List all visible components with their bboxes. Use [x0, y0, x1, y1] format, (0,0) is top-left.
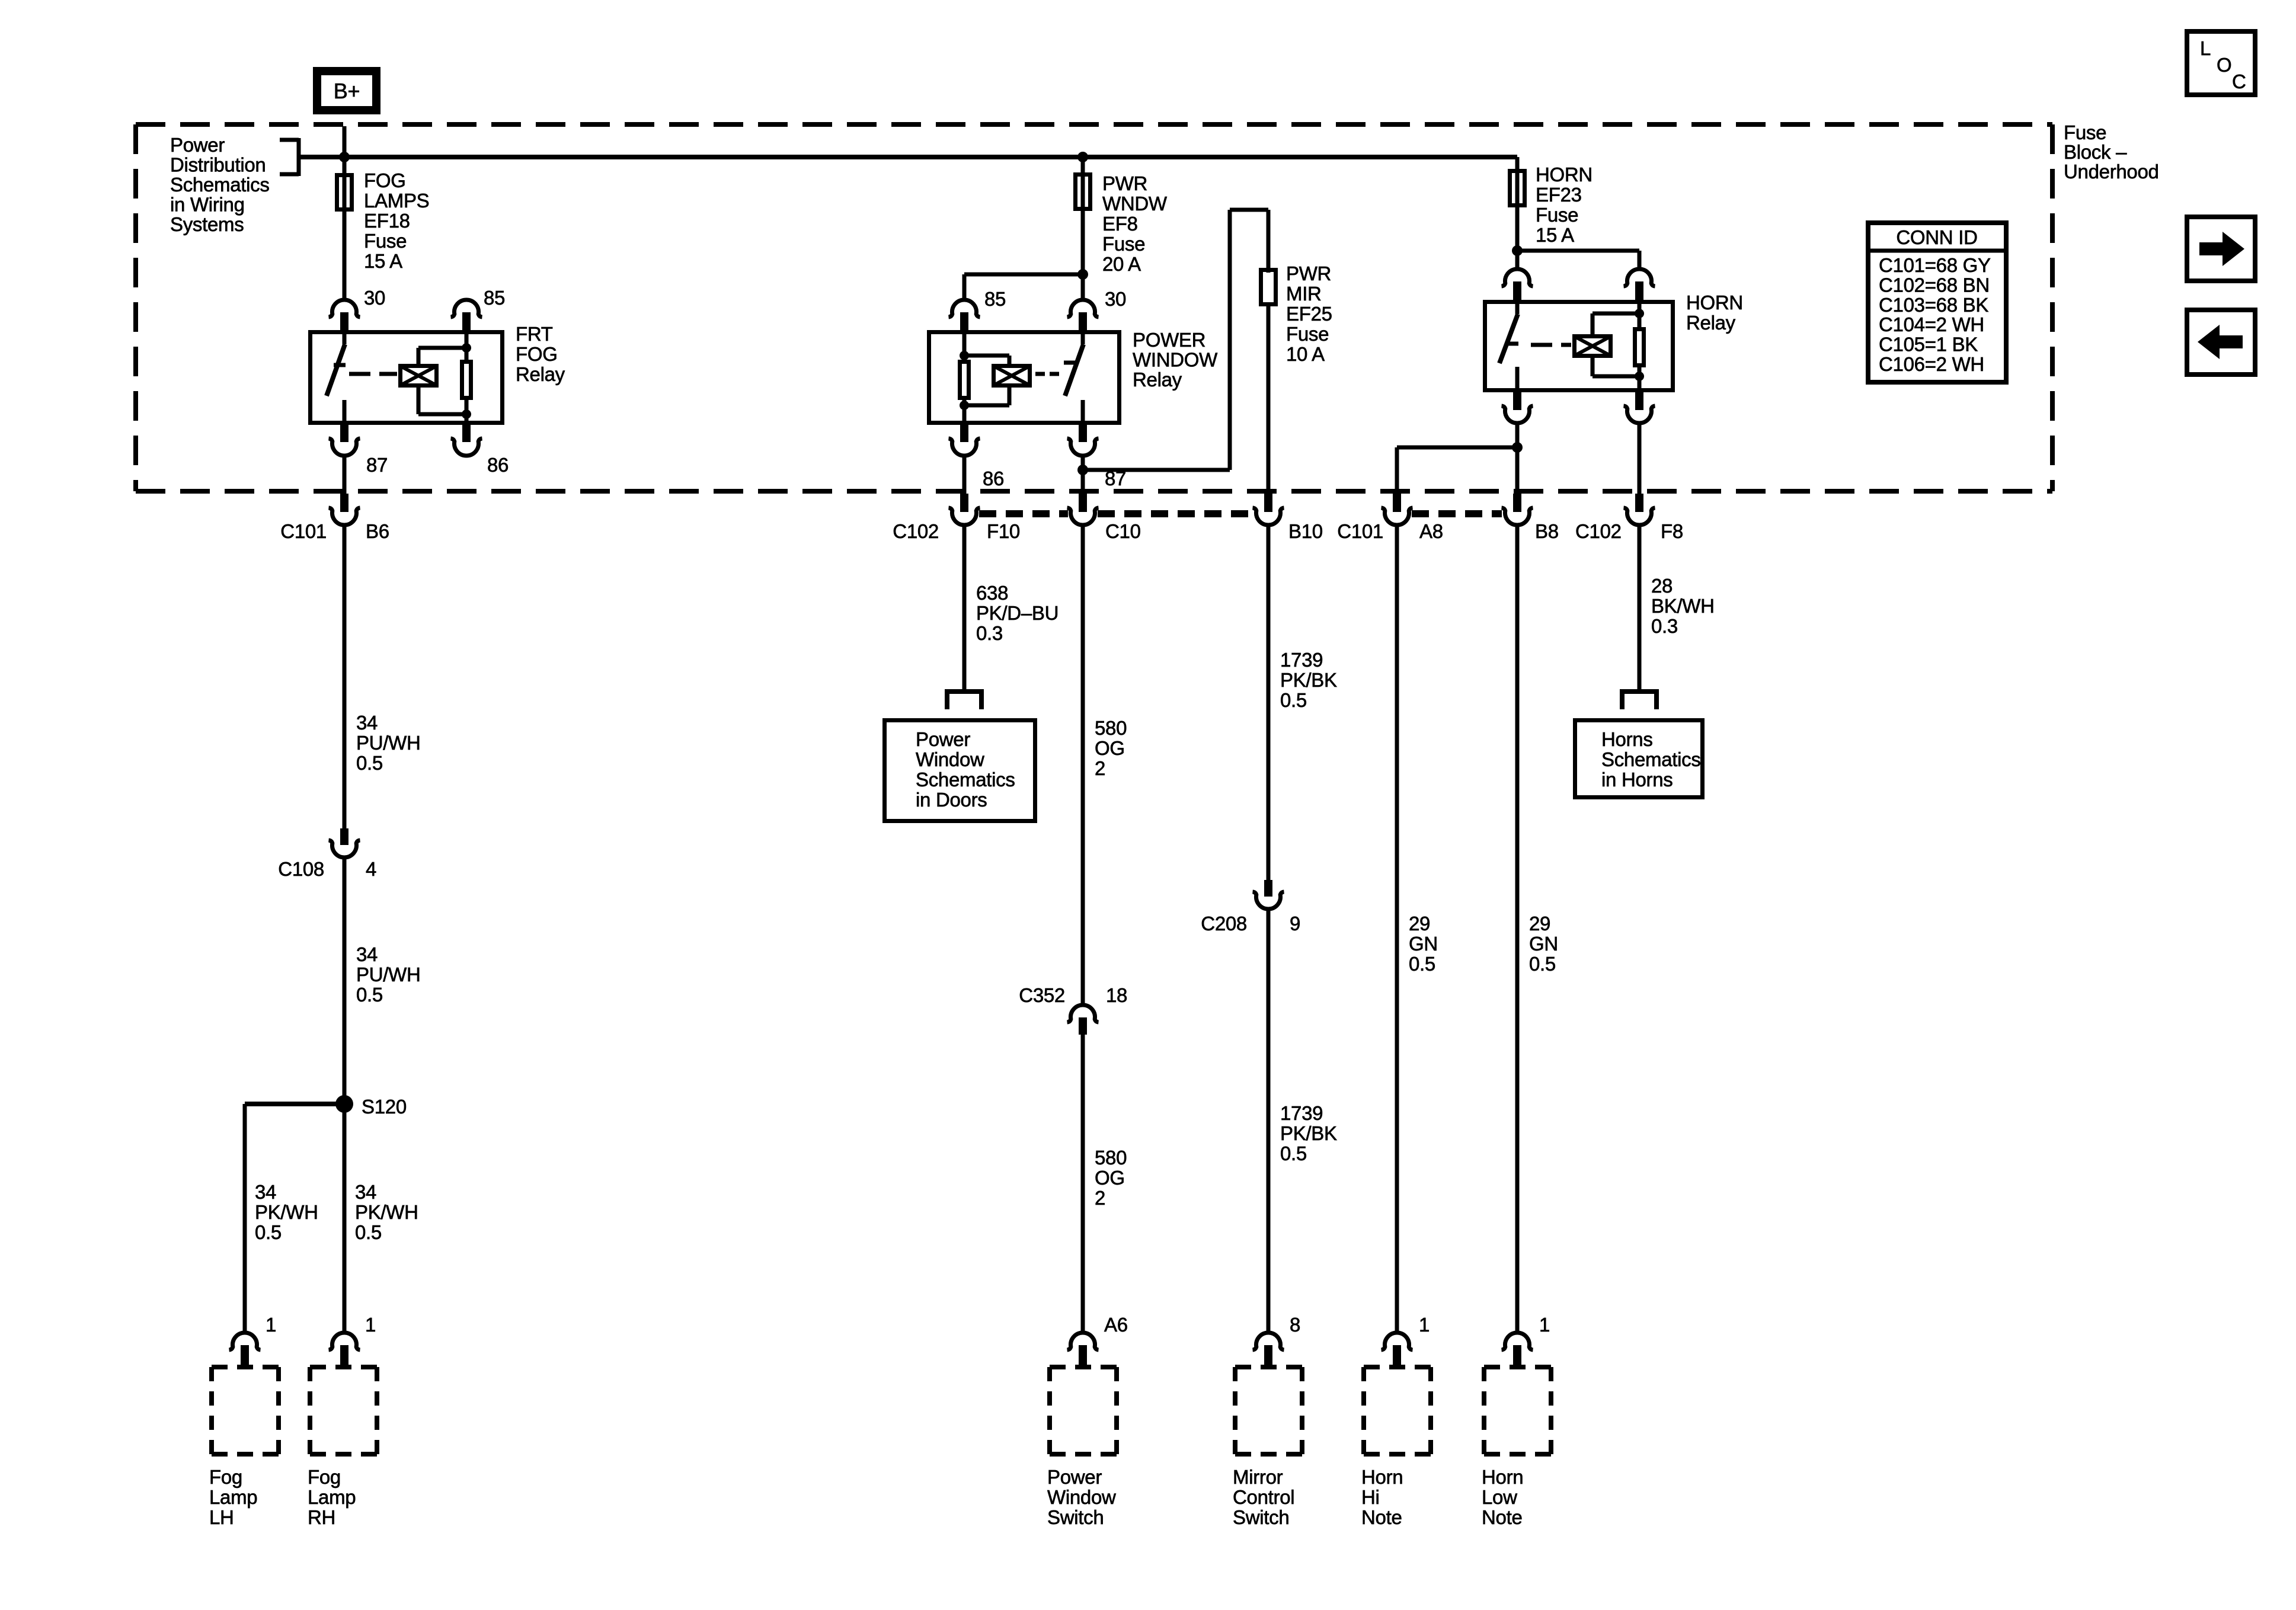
svg-text:18: 18 [1106, 984, 1127, 1006]
label C101 [280, 520, 327, 542]
connector C10 [1067, 494, 1099, 525]
B+ battery feed symbol box [317, 71, 376, 110]
junction dot horn coil bottom [1635, 372, 1644, 381]
svg-text:L: L [2200, 37, 2211, 59]
fog relay coil top loop [418, 348, 466, 364]
svg-text:HORN: HORN [1686, 292, 1743, 313]
svg-text:1: 1 [1419, 1314, 1430, 1336]
wire label 34 PK/WH 0.5 left [255, 1181, 318, 1243]
svg-text:PWR: PWR [1286, 263, 1331, 284]
wire S120 to fog lamp RH [343, 1104, 347, 1332]
back arrow box [2187, 310, 2255, 375]
svg-text:580: 580 [1095, 1147, 1127, 1169]
wire EF25 to B10 [1267, 306, 1271, 492]
component box Mirror Control Switch [1235, 1367, 1302, 1454]
fog relay pin 87 terminal [329, 425, 360, 456]
connector C102 pin F10 [949, 494, 980, 525]
label Power Window Switch [1047, 1466, 1116, 1528]
svg-text:0.5: 0.5 [1280, 1142, 1307, 1164]
wire horn fuse to coil pin [1517, 251, 1639, 268]
label pin 30 fog relay [364, 287, 385, 309]
svg-text:FRT: FRT [516, 323, 553, 345]
power window switch pin terminal [1067, 1333, 1099, 1365]
wire C108 to S120 [343, 856, 347, 1104]
wire C208 to mirror control switch [1267, 908, 1271, 1332]
relay FRT FOG box [311, 332, 503, 423]
svg-text:1739: 1739 [1280, 1102, 1323, 1124]
label pin 1 horn hi [1419, 1314, 1430, 1336]
svg-text:8: 8 [1290, 1314, 1300, 1336]
svg-text:C101: C101 [1337, 520, 1383, 542]
svg-text:PK/WH: PK/WH [255, 1201, 318, 1223]
dotted connector link A8-B8 [1412, 510, 1502, 517]
svg-text:1: 1 [1539, 1314, 1550, 1336]
wire C10 to C352 [1081, 524, 1085, 1004]
wire horn output to A8 [1397, 447, 1517, 492]
svg-text:EF25: EF25 [1286, 303, 1332, 325]
svg-text:Fuse: Fuse [1286, 323, 1329, 345]
junction dot pw coil top [960, 351, 969, 360]
wire B8 to horn low note [1515, 524, 1520, 1332]
svg-text:Horns: Horns [1601, 728, 1653, 750]
label HORN EF23 Fuse 15 A [1536, 164, 1593, 246]
svg-text:Fuse: Fuse [1536, 204, 1578, 226]
svg-text:F10: F10 [987, 520, 1020, 542]
junction dot horn fuse output [1512, 245, 1523, 256]
svg-text:B10: B10 [1288, 520, 1323, 542]
svg-text:B+: B+ [334, 79, 360, 103]
svg-text:9: 9 [1290, 913, 1300, 934]
svg-text:34: 34 [355, 1181, 376, 1203]
wire bus to fog relay pin 30 [343, 157, 347, 299]
svg-text:PK/WH: PK/WH [355, 1201, 418, 1223]
off-page connector to horns schematic [1620, 689, 1659, 709]
wire label 580 OG 2 lower [1095, 1147, 1127, 1209]
horn relay switch [1499, 300, 1518, 392]
svg-text:C: C [2232, 71, 2246, 92]
fog relay pin 85 terminal [451, 300, 482, 330]
svg-text:C104=2 WH: C104=2 WH [1879, 313, 1984, 335]
pw relay pin86 internal wire [962, 400, 967, 425]
svg-text:Note: Note [1361, 1506, 1402, 1528]
wire label 638 PK/D-BU 0.3 [976, 582, 1059, 644]
svg-text:C352: C352 [1019, 984, 1065, 1006]
pw relay coil top loop [964, 356, 1009, 364]
label B10 [1288, 520, 1323, 542]
fog relay coil [401, 366, 437, 386]
svg-text:Note: Note [1482, 1506, 1523, 1528]
horn relay coil internal wire [1638, 300, 1642, 327]
Fuse Block - Underhood dashed box right border [2050, 124, 2055, 491]
wire pw relay 86 to C102 [962, 454, 967, 494]
component box Fog Lamp LH [212, 1367, 279, 1454]
svg-text:29: 29 [1529, 913, 1550, 934]
wire A8 to horn hi note [1395, 524, 1399, 1332]
label 4 [366, 858, 376, 880]
bracket for Power Distribution reference [280, 138, 299, 176]
svg-text:C102: C102 [1575, 520, 1622, 542]
svg-text:Relay: Relay [516, 363, 565, 385]
label C102 [893, 520, 939, 542]
svg-text:0.5: 0.5 [1529, 953, 1556, 975]
svg-text:C101: C101 [280, 520, 327, 542]
wire label 34 PU/WH 0.5 lower [356, 943, 421, 1006]
wire F8 to horns schematic [1638, 524, 1642, 689]
horn relay resistor [1635, 329, 1644, 366]
wire F10 to doors schematic [962, 524, 967, 689]
svg-text:in Wiring: in Wiring [170, 194, 245, 216]
svg-text:Lamp: Lamp [209, 1486, 257, 1508]
pw relay switch [1064, 330, 1083, 425]
relay HORN box [1485, 302, 1673, 391]
svg-text:34: 34 [255, 1181, 276, 1203]
svg-text:Hi: Hi [1361, 1486, 1380, 1508]
wire label 580 OG 2 upper [1095, 717, 1127, 779]
svg-text:B8: B8 [1535, 520, 1559, 542]
svg-text:C106=2 WH: C106=2 WH [1879, 353, 1984, 375]
svg-text:in Horns: in Horns [1601, 769, 1673, 790]
label HORN Relay [1686, 292, 1743, 334]
label Power Distribution Schematics in Wiring Systems [170, 134, 270, 235]
svg-text:Schematics: Schematics [170, 174, 270, 196]
junction dot pw coil bottom [960, 401, 969, 410]
svg-text:28: 28 [1651, 575, 1673, 597]
label C101 at A8 [1337, 520, 1383, 542]
svg-text:Switch: Switch [1233, 1506, 1289, 1528]
svg-text:Relay: Relay [1133, 369, 1182, 391]
label pin 86 pw relay [983, 468, 1004, 489]
svg-text:1: 1 [266, 1314, 276, 1336]
svg-text:Mirror: Mirror [1233, 1466, 1283, 1488]
component box Horn Low Note [1484, 1367, 1551, 1454]
fog relay pin85 internal wire [465, 330, 469, 360]
main B+ bus wire [299, 155, 1517, 159]
component box Power Window Switch [1050, 1367, 1117, 1454]
label pin 87 fog relay [366, 454, 388, 476]
CONN ID table [1866, 223, 2009, 382]
wire B10 to C208 [1267, 524, 1271, 880]
wire pw fuse to pin 85 [964, 274, 1083, 299]
wire label 29 GN 0.5 left [1409, 913, 1438, 975]
label Fog Lamp LH [209, 1466, 257, 1528]
connector C352 pin 18 [1067, 1005, 1099, 1035]
svg-text:Fuse: Fuse [1102, 233, 1145, 255]
svg-text:1: 1 [365, 1314, 376, 1336]
svg-text:Window: Window [916, 748, 984, 770]
svg-text:2: 2 [1095, 757, 1105, 779]
svg-text:Systems: Systems [170, 213, 244, 235]
wire horn fuse to relay [1515, 166, 1520, 268]
pw relay pin 30 terminal [1067, 300, 1099, 330]
wire C101-B6 to C108 [343, 524, 347, 828]
horn hi note pin terminal [1382, 1333, 1413, 1365]
svg-text:580: 580 [1095, 717, 1127, 739]
svg-text:PU/WH: PU/WH [356, 732, 421, 754]
junction dot fog coil top [462, 343, 471, 353]
pw relay actuator dashed link [1035, 372, 1061, 376]
svg-text:C108: C108 [278, 858, 324, 880]
pw relay pin 87 terminal [1067, 425, 1099, 456]
fuse EF25 PWR MIR 10A [1261, 270, 1276, 305]
svg-text:A6: A6 [1104, 1314, 1128, 1336]
svg-text:EF18: EF18 [364, 210, 410, 232]
fog relay actuator dashed link [349, 372, 397, 376]
svg-text:OG: OG [1095, 737, 1125, 759]
svg-text:0.5: 0.5 [1409, 953, 1435, 975]
label B6 [366, 520, 389, 542]
connector C102 pin F8 [1624, 494, 1655, 525]
label pin 30 pw relay [1105, 288, 1126, 310]
label S120 [362, 1096, 407, 1118]
mirror control switch pin terminal [1253, 1333, 1284, 1365]
fog relay resistor [462, 362, 471, 398]
svg-text:GN: GN [1409, 933, 1438, 955]
horn relay switch output terminal [1502, 392, 1533, 423]
svg-text:4: 4 [366, 858, 376, 880]
svg-text:Control: Control [1233, 1486, 1294, 1508]
label PWR WNDW EF8 Fuse 20 A [1102, 172, 1168, 275]
horn relay coil lower internal wire [1638, 367, 1642, 392]
svg-text:Low: Low [1482, 1486, 1517, 1508]
svg-text:30: 30 [364, 287, 385, 309]
label pin 8 [1290, 1314, 1300, 1336]
fuse EF18 FOG LAMPS 15A [337, 175, 352, 210]
connector C101 pin B6 [329, 494, 360, 525]
Fuse Block - Underhood dashed box left border [133, 124, 138, 491]
pw relay coil bottom loop [964, 388, 1009, 405]
label 9 [1290, 913, 1300, 934]
svg-text:C105=1 BK: C105=1 BK [1879, 334, 1978, 356]
svg-text:MIR: MIR [1286, 283, 1322, 305]
svg-text:BK/WH: BK/WH [1651, 595, 1715, 617]
component box Horn Hi Note [1364, 1367, 1431, 1454]
wire C352 to power window switch [1081, 1035, 1085, 1332]
horn low note pin terminal [1502, 1333, 1533, 1365]
label C208 [1201, 913, 1247, 934]
svg-text:10 A: 10 A [1286, 343, 1325, 365]
junction dot bus/fog [339, 152, 350, 162]
svg-text:87: 87 [366, 454, 388, 476]
wire pw relay 87 down [1081, 454, 1085, 494]
svg-text:PK/D–BU: PK/D–BU [976, 602, 1059, 624]
horn relay switch-side terminal [1502, 269, 1533, 300]
svg-text:Power: Power [916, 728, 970, 750]
svg-text:WINDOW: WINDOW [1133, 349, 1218, 371]
svg-text:S120: S120 [362, 1096, 407, 1118]
label Fog Lamp RH [308, 1466, 356, 1528]
label pin 87 pw relay [1105, 468, 1126, 489]
pw relay pin 85 terminal [949, 300, 980, 330]
svg-text:0.3: 0.3 [1651, 615, 1678, 637]
svg-text:in Doors: in Doors [916, 789, 987, 811]
svg-text:C102=68 BN: C102=68 BN [1879, 274, 1990, 296]
off-page connector to doors schematic [945, 689, 984, 709]
svg-text:30: 30 [1105, 288, 1126, 310]
wire horn relay to splice [1515, 422, 1520, 494]
horn relay coil [1575, 337, 1611, 356]
label C10 [1105, 520, 1141, 542]
svg-text:Horn: Horn [1482, 1466, 1523, 1488]
horn relay actuator dashed link [1531, 343, 1571, 347]
svg-text:1739: 1739 [1280, 649, 1323, 671]
svg-text:Schematics: Schematics [1601, 748, 1701, 770]
svg-text:2: 2 [1095, 1187, 1105, 1209]
svg-text:0.5: 0.5 [1280, 689, 1307, 711]
pw relay resistor [960, 362, 969, 398]
svg-text:C101=68 GY: C101=68 GY [1879, 254, 1991, 276]
svg-text:PU/WH: PU/WH [356, 964, 421, 985]
dotted connector link C10-B10 [1098, 510, 1253, 517]
horn relay coil output terminal [1624, 392, 1655, 423]
junction dot pw fuse output [1077, 269, 1088, 280]
label PWR MIR EF25 Fuse 10 A [1286, 263, 1332, 365]
splice S120 [335, 1095, 353, 1113]
fog lamp LH pin terminal [229, 1333, 261, 1365]
svg-text:LH: LH [209, 1506, 234, 1528]
label POWER WINDOW Relay [1133, 329, 1218, 391]
wire label 1739 PK/BK 0.5 lower [1280, 1102, 1337, 1164]
svg-text:34: 34 [356, 712, 378, 734]
wire label 28 BK/WH 0.3 [1651, 575, 1715, 637]
wire B+ to bus [343, 126, 347, 157]
svg-text:638: 638 [976, 582, 1008, 604]
svg-text:Power: Power [1047, 1466, 1102, 1488]
label C102 at F8 [1575, 520, 1622, 542]
label pin 1 fog lamp LH [266, 1314, 276, 1336]
horn relay coil-side terminal [1624, 269, 1655, 300]
wire label 29 GN 0.5 right [1529, 913, 1558, 975]
wire bus corner to horn fuse [1515, 157, 1520, 169]
label A6 [1104, 1314, 1128, 1336]
Fuse Block - Underhood dashed box top border [136, 122, 2052, 127]
label Horn Low Note [1482, 1466, 1523, 1528]
connector C108 pin 4 [329, 828, 360, 857]
svg-text:Schematics: Schematics [916, 769, 1015, 790]
Fuse Block - Underhood dashed box bottom border [136, 489, 2052, 494]
svg-text:RH: RH [308, 1506, 335, 1528]
svg-text:Window: Window [1047, 1486, 1116, 1508]
label A8 [1419, 520, 1443, 542]
svg-text:HORN: HORN [1536, 164, 1593, 185]
svg-text:EF8: EF8 [1102, 213, 1138, 235]
junction dot horn coil top [1635, 309, 1644, 318]
label FOG LAMPS EF18 Fuse 15 A [364, 169, 429, 272]
wire horn coil to F8 [1638, 422, 1642, 494]
svg-text:86: 86 [487, 454, 509, 476]
svg-text:15 A: 15 A [1536, 224, 1574, 246]
wire label 34 PU/WH 0.5 upper [356, 712, 421, 774]
svg-text:Distribution: Distribution [170, 154, 266, 176]
label pin 1 horn low [1539, 1314, 1550, 1336]
svg-text:85: 85 [484, 287, 505, 309]
relay POWER WINDOW box [929, 332, 1120, 423]
fog relay pin 86 terminal [451, 425, 482, 456]
svg-text:Fuse: Fuse [364, 230, 407, 252]
pw relay pin 86 terminal [949, 425, 980, 456]
svg-text:Fog: Fog [308, 1466, 341, 1488]
svg-text:POWER: POWER [1133, 329, 1205, 351]
junction dot pin87 / pwr-mir feed [1077, 465, 1088, 475]
junction dot horn output [1512, 442, 1523, 453]
svg-text:Fog: Fog [209, 1466, 242, 1488]
dotted connector link F10-C10 [979, 510, 1068, 517]
svg-text:Horn: Horn [1361, 1466, 1403, 1488]
svg-text:C10: C10 [1105, 520, 1141, 542]
svg-text:0.5: 0.5 [355, 1221, 382, 1243]
svg-text:F8: F8 [1661, 520, 1683, 542]
pw relay coil [994, 366, 1030, 386]
svg-text:Underhood: Underhood [2064, 161, 2159, 183]
svg-text:Power: Power [170, 134, 225, 156]
label pin 85 pw relay [984, 288, 1006, 310]
label C352 [1019, 984, 1065, 1006]
fuse EF8 PWR WNDW 20A [1076, 175, 1091, 209]
label FRT FOG Relay [516, 323, 565, 385]
horn relay coil top loop [1593, 313, 1639, 334]
label Power Window Schematics in Doors [916, 728, 1015, 811]
svg-text:0.5: 0.5 [356, 752, 383, 774]
svg-text:0.3: 0.3 [976, 622, 1003, 644]
junction dot bus/power-window [1077, 152, 1088, 162]
svg-text:O: O [2217, 54, 2231, 76]
svg-text:WNDW: WNDW [1102, 193, 1168, 215]
connector C101 pin A8 [1382, 494, 1413, 525]
junction dot fog coil bottom [462, 409, 471, 419]
svg-text:OG: OG [1095, 1167, 1125, 1189]
component box Fog Lamp RH [310, 1367, 377, 1454]
connector B10 [1253, 494, 1284, 525]
svg-text:B6: B6 [366, 520, 389, 542]
svg-text:Relay: Relay [1686, 312, 1736, 334]
fuse EF23 HORN 15A [1510, 171, 1525, 206]
svg-text:C208: C208 [1201, 913, 1247, 934]
svg-text:34: 34 [356, 943, 378, 965]
svg-text:0.5: 0.5 [356, 984, 383, 1006]
connector C208 pin 9 [1253, 880, 1284, 909]
svg-text:LAMPS: LAMPS [364, 190, 429, 212]
forward arrow box [2187, 217, 2255, 281]
label Horns Schematics in Horns [1601, 728, 1701, 790]
fog relay pin86 internal wire [465, 400, 469, 425]
svg-text:Block –: Block – [2064, 141, 2127, 163]
label pin 1 fog lamp RH [365, 1314, 376, 1336]
fog relay coil bottom loop [418, 388, 466, 414]
label pin 86 fog relay [487, 454, 509, 476]
svg-text:FOG: FOG [516, 343, 558, 365]
fog relay pin 30 terminal [329, 300, 360, 330]
wire label 34 PK/WH 0.5 right [355, 1181, 418, 1243]
label Horn Hi Note [1361, 1466, 1403, 1528]
label 18 [1106, 984, 1127, 1006]
wire S120 branch to fog lamp LH [245, 1104, 344, 1332]
svg-text:GN: GN [1529, 933, 1558, 955]
svg-text:Switch: Switch [1047, 1506, 1104, 1528]
label pin 85 fog relay [484, 287, 505, 309]
fog relay switch [327, 330, 346, 425]
svg-text:EF23: EF23 [1536, 184, 1582, 206]
wire label 1739 PK/BK 0.5 upper [1280, 649, 1337, 711]
svg-text:C102: C102 [893, 520, 939, 542]
svg-text:PK/BK: PK/BK [1280, 1122, 1337, 1144]
svg-text:85: 85 [984, 288, 1006, 310]
svg-text:FOG: FOG [364, 169, 406, 191]
reference box Horns Schematics in Horns [1575, 721, 1703, 798]
svg-text:PWR: PWR [1102, 172, 1147, 194]
label F10 [987, 520, 1020, 542]
wire fog relay 87 to C101 [343, 454, 347, 494]
wire bus to power window relay [1081, 157, 1085, 299]
svg-text:PK/BK: PK/BK [1280, 669, 1337, 691]
